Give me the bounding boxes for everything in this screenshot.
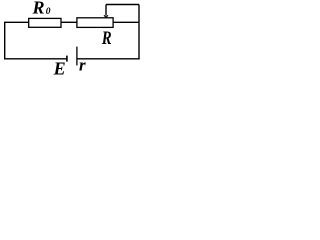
wire bottom-left segment <box>4 58 67 60</box>
wire between R0 and R <box>61 21 77 23</box>
svg-text:R: R <box>32 0 45 18</box>
svg-text:0: 0 <box>46 7 51 17</box>
svg-text:E: E <box>53 59 66 76</box>
svg-text:R: R <box>101 29 112 49</box>
battery short plate <box>66 56 68 62</box>
wire from R to right side <box>113 21 139 23</box>
wire right vertical <box>138 5 140 60</box>
wire top-left segment <box>4 21 29 23</box>
wire slider tap top <box>106 4 139 6</box>
slider arrowhead <box>104 15 108 17</box>
wire bottom-right segment <box>77 58 140 60</box>
svg-text:r: r <box>79 56 86 75</box>
wire left vertical <box>4 22 6 59</box>
resistor R0 <box>29 18 61 27</box>
battery long plate <box>76 47 78 66</box>
slider wire vertical <box>105 5 107 16</box>
rheostat R body <box>77 18 113 28</box>
